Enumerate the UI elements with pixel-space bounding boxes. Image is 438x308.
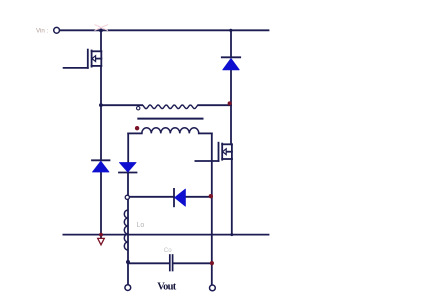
svg-text:Vin :: Vin :: [36, 27, 49, 34]
svg-text:Vout: Vout: [157, 281, 177, 292]
svg-text:Lo: Lo: [137, 222, 145, 229]
svg-text:Co: Co: [164, 247, 172, 254]
